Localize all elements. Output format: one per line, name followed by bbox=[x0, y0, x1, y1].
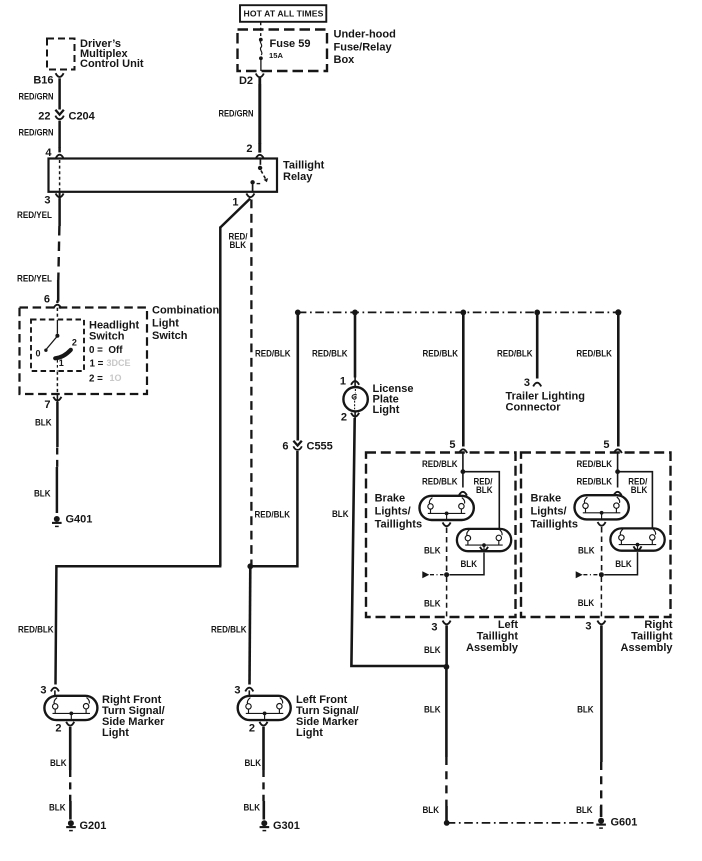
svg-text:RED/BLK: RED/BLK bbox=[211, 625, 247, 635]
pin below bulb 1 bbox=[598, 522, 606, 526]
svg-text:BLK: BLK bbox=[424, 704, 441, 714]
svg-text:BLK: BLK bbox=[615, 559, 632, 569]
svg-text:RED/BLK: RED/BLK bbox=[422, 476, 458, 486]
svg-text:C204: C204 bbox=[69, 111, 96, 123]
svg-text:BLK: BLK bbox=[423, 805, 440, 815]
ground G201 bbox=[66, 820, 106, 832]
lamp right front turn signal/side marker bbox=[44, 690, 97, 720]
svg-text:15A: 15A bbox=[269, 51, 283, 60]
svg-text:RED/BLK: RED/BLK bbox=[422, 459, 458, 469]
svg-text:RED/YEL: RED/YEL bbox=[17, 273, 52, 283]
left taillight assembly box (dashed) bbox=[366, 453, 516, 618]
svg-text:4: 4 bbox=[45, 147, 52, 159]
svg-text:RED/GRN: RED/GRN bbox=[19, 92, 54, 102]
pin 3 trailer lighting connector bbox=[524, 377, 541, 389]
node bus tap 5 bbox=[615, 309, 621, 315]
svg-text:RED/YEL: RED/YEL bbox=[17, 210, 52, 220]
svg-text:RED/BLK: RED/BLK bbox=[577, 476, 613, 486]
wire pin7 to G401, BLK bbox=[56, 402, 59, 447]
svg-text:Side Marker: Side Marker bbox=[102, 716, 165, 728]
svg-text:BLK: BLK bbox=[332, 509, 349, 519]
wire pin5 into box RED/BLK RED/BLK bbox=[617, 453, 619, 470]
wire stub from hot bar to fuse bbox=[260, 22, 262, 36]
svg-text:Assembly: Assembly bbox=[466, 642, 519, 654]
svg-text:1: 1 bbox=[232, 197, 238, 209]
pin 4 bbox=[45, 147, 63, 159]
wire C555 branch: bus to C555, RED/BLK bbox=[296, 312, 299, 440]
pin 3 right assembly bbox=[585, 620, 605, 632]
svg-text:BLK: BLK bbox=[424, 598, 441, 608]
svg-text:Brake: Brake bbox=[531, 492, 562, 504]
svg-text:Fuse 59: Fuse 59 bbox=[270, 38, 311, 50]
fuse F59 element bbox=[259, 38, 263, 71]
wire junction to pin 3 BLK (dashed) bbox=[600, 577, 602, 620]
connector C555 pin 6 bbox=[282, 440, 332, 452]
svg-text:BLK: BLK bbox=[577, 704, 594, 714]
pin below bulb 2 bbox=[634, 546, 642, 550]
combination light switch outer box (dashed) bbox=[20, 308, 148, 395]
svg-text:3DCE: 3DCE bbox=[107, 358, 131, 368]
svg-text:BLK: BLK bbox=[424, 545, 441, 555]
svg-text:1: 1 bbox=[59, 358, 64, 368]
wire bulb2 down-left to junction BLK bbox=[604, 552, 637, 575]
svg-text:2: 2 bbox=[249, 722, 255, 734]
svg-text:2: 2 bbox=[341, 412, 347, 424]
pin 2 bbox=[341, 411, 359, 423]
node junction left front feed bbox=[247, 563, 253, 569]
svg-text:Light: Light bbox=[102, 727, 129, 739]
pin 1 bbox=[232, 193, 254, 208]
wire C555 down and left to junction RED/BLK bbox=[251, 451, 297, 566]
wire C204 to relay pin4, RED/GRN bbox=[58, 121, 61, 148]
node bus tap 4 bbox=[534, 310, 540, 316]
wire B16 to C204, RED/GRN bbox=[58, 78, 61, 109]
wire bulb1 to junction BLK (dashed) bbox=[601, 527, 603, 572]
wire bus to license plate light RED/BLK bbox=[354, 312, 357, 377]
svg-text:RED/BLK: RED/BLK bbox=[576, 348, 612, 358]
wire node to bulb 1 bbox=[617, 474, 619, 488]
wire pin1 straight down (dashed) bbox=[250, 200, 252, 567]
node split to both bulbs bbox=[461, 469, 466, 474]
pin D2 bbox=[239, 74, 264, 88]
svg-text:G301: G301 bbox=[273, 820, 300, 832]
svg-text:BLK: BLK bbox=[245, 758, 262, 768]
wire bus to trailer connector RED/BLK bbox=[536, 312, 539, 378]
pin 6 bbox=[44, 294, 62, 309]
pin 2 left front bbox=[249, 722, 268, 735]
node license wire joins bbox=[444, 664, 450, 670]
pin below bulb 2 bbox=[480, 547, 488, 551]
svg-text:Taillights: Taillights bbox=[375, 518, 422, 530]
wire pin3 down BLK bbox=[445, 625, 448, 667]
svg-text:Fuse/Relay: Fuse/Relay bbox=[334, 41, 393, 53]
svg-text:3: 3 bbox=[431, 621, 437, 633]
svg-text:1 =: 1 = bbox=[90, 359, 104, 370]
svg-text:Connector: Connector bbox=[506, 402, 562, 414]
pin 5 right assembly bbox=[603, 439, 621, 453]
svg-text:BLK: BLK bbox=[476, 485, 493, 495]
ground G301 bbox=[260, 820, 300, 832]
pin 1 bbox=[340, 375, 359, 387]
svg-text:RED/BLK: RED/BLK bbox=[577, 459, 613, 469]
svg-text:2 =: 2 = bbox=[89, 373, 103, 384]
svg-text:6: 6 bbox=[282, 440, 288, 452]
wire node to bulb 1 bbox=[462, 474, 464, 488]
svg-text:7: 7 bbox=[44, 399, 50, 411]
wire junction down to left front light RED/BLK bbox=[248, 566, 251, 684]
node ground junction in right box bbox=[599, 572, 604, 577]
svg-text:22: 22 bbox=[38, 111, 50, 123]
svg-text:BLK: BLK bbox=[49, 802, 66, 812]
relay switch contact bbox=[250, 159, 268, 191]
svg-text:RED/GRN: RED/GRN bbox=[219, 109, 254, 119]
headlight switch inner box (dashed) bbox=[31, 320, 84, 372]
node bus tap 1 bbox=[295, 310, 301, 316]
svg-text:RED/GRN: RED/GRN bbox=[19, 127, 54, 137]
svg-text:D2: D2 bbox=[239, 75, 253, 87]
svg-text:Taillight: Taillight bbox=[477, 631, 519, 643]
svg-text:1: 1 bbox=[340, 375, 346, 387]
node split to both bulbs bbox=[615, 469, 620, 474]
svg-text:RED/BLK: RED/BLK bbox=[423, 348, 459, 358]
svg-text:Side Marker: Side Marker bbox=[296, 716, 359, 728]
svg-text:1O: 1O bbox=[110, 373, 122, 383]
ground G401 bbox=[52, 514, 92, 527]
svg-text:Taillight: Taillight bbox=[283, 159, 325, 171]
svg-text:BLK: BLK bbox=[230, 240, 247, 250]
svg-text:Combination: Combination bbox=[152, 305, 219, 317]
svg-text:Lights/: Lights/ bbox=[375, 505, 411, 517]
svg-text:Light: Light bbox=[152, 317, 179, 329]
wire pin3 down RED/YEL bbox=[58, 198, 61, 226]
pin 7 bbox=[44, 395, 61, 411]
lamp brake/tail bulb 1 (left assembly) bbox=[420, 496, 474, 520]
wire junction to pin 3 BLK (dashed) bbox=[446, 577, 448, 620]
svg-text:Right: Right bbox=[644, 619, 672, 631]
rotary switch symbol bbox=[35, 308, 76, 394]
pin below bulb 1 bbox=[443, 522, 451, 526]
svg-text:5: 5 bbox=[449, 439, 455, 451]
pin 3 left assembly bbox=[431, 621, 450, 634]
pin 2 bbox=[246, 143, 263, 159]
wire bus to right taillight pin 5 RED/BLK bbox=[617, 312, 620, 446]
wire pin3 down to G601 BLK bbox=[600, 625, 603, 762]
svg-text:Left: Left bbox=[498, 619, 519, 631]
svg-text:BLK: BLK bbox=[50, 758, 67, 768]
node bus tap 3 bbox=[460, 310, 466, 316]
lamp brake/tail bulb 2 (right assembly) bbox=[610, 528, 664, 550]
svg-text:BLK: BLK bbox=[578, 598, 595, 608]
svg-text:2: 2 bbox=[55, 722, 61, 734]
svg-text:G401: G401 bbox=[66, 514, 93, 526]
svg-text:RED/BLK: RED/BLK bbox=[312, 348, 348, 358]
svg-text:Brake: Brake bbox=[375, 492, 406, 504]
wire branch to bulb 2 RED/BLK bbox=[463, 472, 499, 529]
lamp license plate light bbox=[343, 387, 367, 411]
svg-text:6: 6 bbox=[44, 294, 50, 306]
svg-text:RED/BLK: RED/BLK bbox=[18, 625, 54, 635]
pin 2 right front bbox=[55, 722, 74, 735]
under-hood fuse/relay box (dashed) bbox=[238, 30, 328, 72]
node bus tap 2 bbox=[352, 310, 358, 316]
svg-text:Assembly: Assembly bbox=[621, 642, 674, 654]
svg-text:B16: B16 bbox=[33, 74, 53, 86]
pin 3 left front light bbox=[234, 685, 253, 697]
svg-text:Lights/: Lights/ bbox=[531, 505, 567, 517]
svg-text:BLK: BLK bbox=[576, 805, 593, 815]
svg-text:BLK: BLK bbox=[424, 645, 441, 655]
svg-text:G201: G201 bbox=[80, 820, 107, 832]
wire bus to left taillight pin 5 RED/BLK bbox=[462, 312, 465, 446]
connector C204 pin 22 bbox=[38, 110, 95, 123]
wire D2 to relay pin2, RED/GRN bbox=[258, 84, 261, 144]
svg-text:3: 3 bbox=[234, 685, 240, 697]
pin 3 right front light bbox=[40, 685, 59, 697]
wire pin5 into box RED/BLK RED/BLK bbox=[462, 453, 464, 470]
connect-arrow to other circuit bbox=[576, 571, 583, 578]
wire taillight feed bus (dash-dot) bbox=[298, 311, 619, 313]
wire ground rail to G601 (dash-dot) bbox=[447, 822, 594, 824]
svg-text:Light: Light bbox=[296, 727, 323, 739]
svg-text:2: 2 bbox=[72, 337, 77, 347]
svg-text:Switch: Switch bbox=[152, 330, 188, 342]
svg-text:RED/BLK: RED/BLK bbox=[255, 348, 291, 358]
lamp brake/tail bulb 2 (left assembly) bbox=[457, 529, 511, 551]
wire to G201 BLK bbox=[69, 727, 72, 770]
svg-text:C555: C555 bbox=[307, 440, 333, 452]
svg-text:BLK: BLK bbox=[461, 559, 478, 569]
svg-text:3: 3 bbox=[40, 685, 46, 697]
svg-text:5: 5 bbox=[603, 439, 609, 451]
ground G601 bbox=[596, 816, 637, 828]
wire license light to left taillight junction BLK bbox=[351, 418, 445, 666]
svg-text:RED/BLK: RED/BLK bbox=[255, 509, 291, 519]
pin 5 left assembly bbox=[449, 439, 467, 453]
wire pin1 diagonal RED/BLK bbox=[220, 199, 250, 228]
pin B16 bbox=[33, 73, 63, 86]
svg-text:BLK: BLK bbox=[578, 545, 595, 555]
svg-text:Under-hood: Under-hood bbox=[334, 28, 396, 40]
svg-text:BLK: BLK bbox=[35, 417, 52, 427]
wire branch to bulb 2 RED/BLK bbox=[618, 472, 653, 529]
driver's multiplex control unit (dashed box) bbox=[47, 39, 75, 70]
lamp left front turn signal/side marker bbox=[238, 690, 291, 720]
node ground junction in left box bbox=[444, 572, 449, 577]
svg-text:BLK: BLK bbox=[244, 802, 261, 812]
power label HOT AT ALL TIMES bbox=[240, 5, 326, 22]
wire to G301 BLK bbox=[262, 727, 265, 770]
node ground rail bbox=[444, 820, 450, 826]
svg-text:BLK: BLK bbox=[34, 488, 51, 498]
svg-text:0 = Off: 0 = Off bbox=[89, 345, 123, 356]
right taillight assembly box (dashed) bbox=[521, 453, 671, 618]
svg-text:Taillight: Taillight bbox=[631, 631, 673, 643]
svg-text:3: 3 bbox=[524, 377, 530, 389]
lamp brake/tail bulb 1 (right assembly) bbox=[575, 495, 629, 519]
svg-text:Control Unit: Control Unit bbox=[80, 58, 144, 70]
pin 3 bbox=[44, 192, 63, 207]
svg-text:HOT AT ALL TIMES: HOT AT ALL TIMES bbox=[244, 8, 324, 18]
taillight relay K box bbox=[49, 159, 278, 192]
svg-text:Light: Light bbox=[373, 404, 400, 416]
svg-text:Taillights: Taillights bbox=[531, 518, 578, 530]
svg-text:2: 2 bbox=[246, 143, 252, 155]
wire bulb1 to junction BLK (dashed) bbox=[446, 528, 448, 572]
wire to right front light (horizontal + down) RED/BLK bbox=[56, 566, 222, 684]
wire bulb2 down-left to junction BLK bbox=[449, 553, 484, 575]
connect-arrow to other circuit bbox=[422, 571, 429, 578]
svg-text:Relay: Relay bbox=[283, 171, 313, 183]
svg-text:Switch: Switch bbox=[89, 331, 125, 343]
svg-text:0: 0 bbox=[35, 349, 40, 359]
svg-text:Box: Box bbox=[334, 54, 356, 66]
relay coil (dashed) bbox=[59, 160, 61, 191]
svg-text:G601: G601 bbox=[611, 816, 638, 828]
wire down to ground rail BLK bbox=[445, 667, 448, 757]
svg-text:3: 3 bbox=[44, 194, 50, 206]
svg-text:RED/BLK: RED/BLK bbox=[497, 348, 533, 358]
svg-text:3: 3 bbox=[585, 620, 591, 632]
svg-text:BLK: BLK bbox=[631, 485, 648, 495]
